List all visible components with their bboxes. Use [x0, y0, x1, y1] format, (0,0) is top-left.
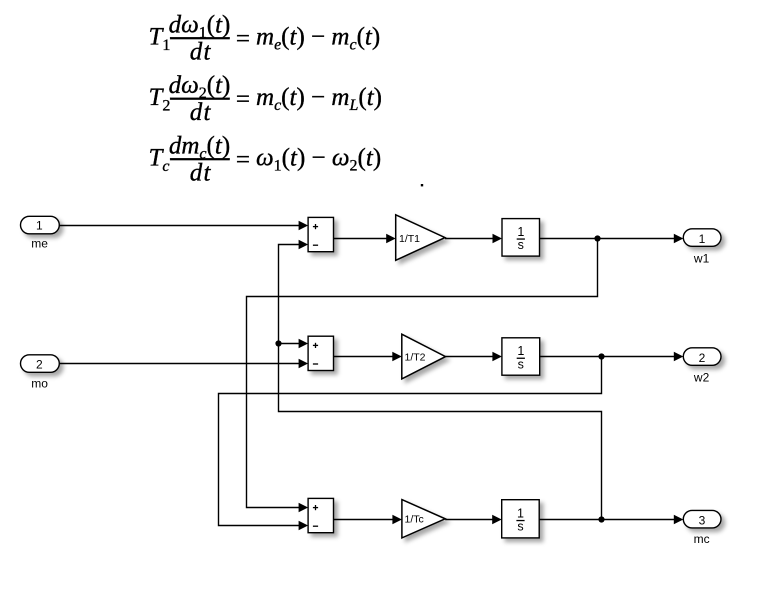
svg-text:3: 3 — [699, 513, 706, 527]
svg-text:w2: w2 — [693, 370, 710, 384]
svg-text:1: 1 — [517, 344, 524, 358]
svg-text:s: s — [518, 357, 524, 371]
svg-text:1: 1 — [517, 225, 524, 239]
svg-text:2: 2 — [36, 358, 43, 372]
svg-text:=: = — [236, 26, 250, 53]
svg-text:=: = — [236, 147, 250, 174]
svg-text:w1: w1 — [693, 251, 710, 265]
svg-text:1: 1 — [36, 219, 43, 233]
svg-text:1/T2: 1/T2 — [405, 352, 426, 364]
svg-text:2: 2 — [699, 351, 706, 365]
svg-text:1/Tc: 1/Tc — [405, 514, 424, 526]
svg-text:mo: mo — [31, 376, 48, 390]
svg-text:1/T1: 1/T1 — [399, 233, 420, 245]
svg-text:dt: dt — [190, 99, 212, 126]
svg-text:s: s — [517, 520, 523, 534]
svg-text:=: = — [236, 86, 250, 113]
svg-text:1: 1 — [517, 506, 524, 520]
svg-text:s: s — [518, 238, 524, 252]
svg-text:dt: dt — [190, 39, 212, 66]
svg-text:1: 1 — [699, 232, 706, 246]
svg-text:me: me — [31, 237, 48, 251]
svg-text:mc: mc — [694, 532, 710, 546]
svg-text:dt: dt — [190, 160, 212, 187]
